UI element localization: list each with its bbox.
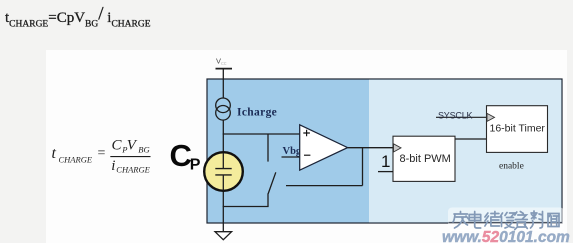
svg-text:www.520101.com: www.520101.com bbox=[442, 229, 570, 243]
digital side (light panel) bbox=[369, 80, 561, 223]
svg-text:P: P bbox=[190, 157, 201, 174]
wire Vbg stub to comparator minus input bbox=[282, 156, 300, 158]
watermark Chinese characters (stylized) bbox=[453, 211, 559, 230]
switch S1 lower wire bbox=[267, 193, 269, 206]
node Vcc rail bar bbox=[216, 68, 233, 70]
capacitor CP top stem bbox=[222, 153, 224, 168]
svg-text:C: C bbox=[112, 138, 123, 154]
U3 clock input triangle bbox=[487, 113, 495, 121]
svg-text:8-bit PWM: 8-bit PWM bbox=[400, 153, 451, 165]
svg-text:CHARGE: CHARGE bbox=[116, 165, 150, 175]
wire comparator output to PWM bbox=[348, 147, 393, 149]
svg-text:i: i bbox=[111, 158, 115, 174]
svg-text:1: 1 bbox=[381, 152, 390, 171]
capacitor CP top plate bbox=[215, 168, 231, 170]
svg-text:=: = bbox=[98, 146, 106, 161]
svg-text:SYSCLK: SYSCLK bbox=[438, 111, 473, 121]
svg-text:t: t bbox=[52, 145, 57, 162]
fraction bar bbox=[110, 156, 150, 158]
capacitor CP bottom stem bbox=[222, 175, 224, 191]
wire capacitor node to comparator plus input bbox=[223, 133, 300, 135]
current source I1 (lower circle) bbox=[216, 106, 231, 121]
main block bottom border (visible through watermark) bbox=[449, 221, 563, 223]
svg-text:Icharge: Icharge bbox=[237, 107, 277, 119]
svg-text:16-bit Timer: 16-bit Timer bbox=[490, 123, 546, 135]
formula t_CHARGE = CP VBG / i_CHARGE (fraction, left) bbox=[52, 138, 151, 175]
main block (outer rectangle, analog side) bbox=[207, 79, 562, 223]
watermark backdrop bbox=[448, 208, 564, 232]
svg-text:Vbg: Vbg bbox=[283, 146, 302, 157]
svg-text:BG: BG bbox=[138, 145, 149, 155]
current source I1 (upper circle) bbox=[216, 98, 231, 113]
white diagram area bbox=[46, 50, 567, 243]
U2 clock input triangle bbox=[394, 144, 402, 152]
wire bottom of switch to ground rail bbox=[223, 206, 269, 208]
svg-text:enable: enable bbox=[499, 162, 524, 172]
capacitor CP body (yellow circle) bbox=[204, 152, 243, 191]
block U3 16-bit Timer bbox=[487, 106, 548, 153]
wire SYSCLK to timer bbox=[436, 116, 487, 118]
block U2 8-bit PWM bbox=[393, 136, 455, 181]
capacitor CP bottom plate bbox=[215, 174, 231, 176]
wire feedback vertical bbox=[362, 148, 364, 186]
switch S1 blade bbox=[268, 172, 276, 193]
wire PWM to timer bbox=[455, 138, 487, 140]
switch S1 upper wire bbox=[267, 134, 269, 162]
wire feedback horizontal to switch bbox=[286, 185, 363, 187]
svg-text:C: C bbox=[170, 138, 192, 173]
comparator minus sign bbox=[304, 154, 310, 156]
comparator plus sign bbox=[303, 130, 310, 137]
wire current source down to capacitor and ground bbox=[222, 120, 224, 232]
svg-text:CHARGE: CHARGE bbox=[59, 155, 93, 165]
op-amp comparator U1 bbox=[300, 125, 348, 170]
ground bbox=[215, 232, 232, 240]
wire input 1 stub bbox=[378, 171, 393, 173]
wire Vcc to current source bbox=[222, 69, 224, 98]
